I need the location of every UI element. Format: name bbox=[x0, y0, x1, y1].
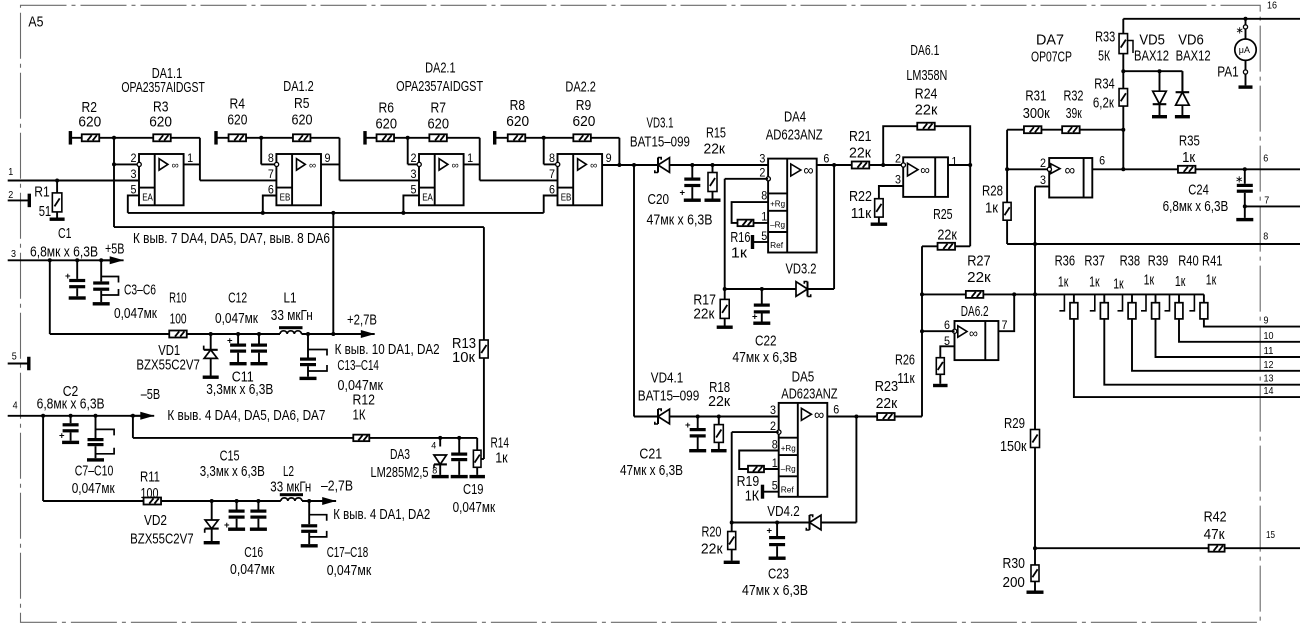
svg-text:3: 3 bbox=[770, 405, 776, 417]
svg-text:1к: 1к bbox=[1113, 277, 1124, 293]
svg-text:VD6: VD6 bbox=[1178, 32, 1204, 48]
svg-text:–2,7В: –2,7В bbox=[321, 478, 353, 494]
svg-text:R25: R25 bbox=[933, 207, 953, 223]
svg-text:К выв. 4 DA1, DA2: К выв. 4 DA1, DA2 bbox=[333, 507, 430, 523]
svg-text:R10: R10 bbox=[169, 290, 187, 306]
svg-text:6,2к: 6,2к bbox=[1093, 95, 1115, 111]
svg-text:11к: 11к bbox=[897, 371, 915, 387]
svg-text:3,3мк x 6,3В: 3,3мк x 6,3В bbox=[206, 382, 273, 398]
svg-text:200: 200 bbox=[1003, 575, 1025, 591]
svg-text:C21: C21 bbox=[639, 447, 662, 463]
svg-text:R2: R2 bbox=[82, 100, 98, 116]
svg-text:0,047мк: 0,047мк bbox=[230, 562, 275, 578]
svg-text:22к: 22к bbox=[876, 396, 898, 412]
svg-text:VD5: VD5 bbox=[1139, 32, 1165, 48]
svg-text:BAX12: BAX12 bbox=[1176, 48, 1211, 64]
svg-text:R31: R31 bbox=[1025, 89, 1046, 105]
svg-text:R39: R39 bbox=[1148, 254, 1169, 270]
svg-text:R22: R22 bbox=[849, 189, 872, 205]
svg-text:9: 9 bbox=[606, 153, 612, 165]
svg-text:R14: R14 bbox=[491, 435, 510, 451]
svg-text:4: 4 bbox=[13, 400, 18, 412]
svg-text:C15: C15 bbox=[220, 448, 240, 464]
svg-text:R26: R26 bbox=[895, 352, 915, 368]
svg-text:R37: R37 bbox=[1084, 254, 1105, 270]
svg-text:6,8мк x 6,3В: 6,8мк x 6,3В bbox=[30, 244, 98, 260]
svg-text:10к: 10к bbox=[452, 350, 476, 366]
svg-text:2: 2 bbox=[8, 189, 13, 201]
svg-text:EA: EA bbox=[142, 192, 153, 204]
svg-text:0,047мк: 0,047мк bbox=[338, 378, 384, 394]
svg-text:22к: 22к bbox=[967, 270, 991, 286]
svg-text:∞: ∞ bbox=[590, 161, 597, 172]
svg-text:14: 14 bbox=[1264, 385, 1274, 397]
svg-text:1: 1 bbox=[772, 458, 778, 470]
svg-text:4: 4 bbox=[431, 441, 436, 452]
svg-text:1к: 1к bbox=[1182, 150, 1196, 166]
svg-text:7: 7 bbox=[1002, 320, 1008, 332]
svg-text:100: 100 bbox=[141, 486, 159, 502]
svg-text:L1: L1 bbox=[284, 290, 297, 306]
svg-text:1: 1 bbox=[761, 212, 767, 224]
svg-text:620: 620 bbox=[573, 114, 596, 130]
svg-text:R27: R27 bbox=[967, 254, 991, 270]
svg-text:+: + bbox=[59, 431, 65, 442]
svg-text:C12: C12 bbox=[228, 290, 247, 306]
svg-text:0,047мк: 0,047мк bbox=[215, 311, 259, 327]
svg-text:1к: 1к bbox=[731, 246, 748, 262]
svg-text:11: 11 bbox=[1264, 345, 1274, 357]
svg-text:R42: R42 bbox=[1204, 510, 1227, 526]
svg-text:DA1.2: DA1.2 bbox=[283, 79, 314, 95]
svg-text:12: 12 bbox=[1264, 359, 1274, 371]
svg-text:0,047мк: 0,047мк bbox=[453, 500, 496, 516]
svg-text:6: 6 bbox=[833, 405, 839, 417]
svg-text:R4: R4 bbox=[230, 97, 246, 113]
svg-text:3: 3 bbox=[411, 169, 417, 181]
svg-text:8: 8 bbox=[1263, 231, 1268, 243]
svg-text:47мк x 6,3В: 47мк x 6,3В bbox=[620, 463, 683, 479]
svg-text:+: + bbox=[65, 271, 71, 282]
svg-text:620: 620 bbox=[227, 113, 247, 129]
svg-text:47к: 47к bbox=[1204, 527, 1226, 543]
svg-text:33 мкГн: 33 мкГн bbox=[270, 479, 311, 495]
svg-text:R1: R1 bbox=[34, 184, 50, 200]
svg-text:R9: R9 bbox=[576, 98, 592, 114]
svg-text:47мк x 6,3В: 47мк x 6,3В bbox=[732, 350, 797, 366]
svg-text:μA: μA bbox=[1239, 45, 1250, 55]
svg-text:DA2.2: DA2.2 bbox=[565, 80, 596, 96]
svg-text:∞: ∞ bbox=[309, 161, 316, 172]
svg-text:6: 6 bbox=[1263, 153, 1268, 165]
svg-text:R38: R38 bbox=[1120, 254, 1141, 270]
svg-text:1К: 1К bbox=[745, 489, 760, 505]
svg-text:+: + bbox=[680, 188, 686, 199]
svg-text:+Rg: +Rg bbox=[770, 199, 785, 209]
svg-text:A5: A5 bbox=[28, 14, 43, 31]
svg-text:R40: R40 bbox=[1178, 254, 1199, 270]
svg-text:9: 9 bbox=[325, 153, 331, 165]
svg-text:1к: 1к bbox=[1206, 273, 1217, 289]
svg-text:+: + bbox=[767, 526, 773, 537]
svg-text:R35: R35 bbox=[1179, 134, 1200, 150]
svg-text:5: 5 bbox=[12, 351, 17, 363]
svg-text:47мк x 6,3В: 47мк x 6,3В bbox=[647, 213, 713, 229]
svg-text:C20: C20 bbox=[648, 192, 670, 208]
svg-text:15: 15 bbox=[1266, 529, 1275, 541]
svg-text:620: 620 bbox=[149, 115, 172, 131]
svg-text:+: + bbox=[752, 312, 758, 323]
svg-text:2: 2 bbox=[895, 154, 901, 166]
svg-text:R34: R34 bbox=[1094, 77, 1114, 93]
svg-text:1: 1 bbox=[467, 153, 473, 165]
svg-text:R5: R5 bbox=[294, 96, 310, 112]
svg-text:C16: C16 bbox=[244, 545, 263, 561]
svg-text:8: 8 bbox=[761, 191, 767, 203]
svg-text:∞: ∞ bbox=[172, 161, 179, 172]
svg-text:R12: R12 bbox=[353, 392, 376, 408]
svg-text:R41: R41 bbox=[1202, 254, 1223, 270]
svg-text:∗: ∗ bbox=[1235, 175, 1243, 186]
svg-text:DA3: DA3 bbox=[390, 447, 410, 463]
svg-text:3: 3 bbox=[131, 169, 137, 181]
svg-text:R15: R15 bbox=[706, 126, 726, 142]
svg-text:0,047мк: 0,047мк bbox=[114, 306, 158, 322]
svg-text:R8: R8 bbox=[510, 98, 525, 114]
svg-text:22к: 22к bbox=[849, 145, 872, 161]
svg-text:R6: R6 bbox=[379, 101, 395, 117]
svg-text:C1: C1 bbox=[58, 226, 72, 242]
svg-text:22к: 22к bbox=[693, 307, 715, 323]
svg-text:3,3мк x 6,3В: 3,3мк x 6,3В bbox=[200, 464, 265, 480]
svg-text:10: 10 bbox=[1264, 330, 1274, 342]
svg-text:39к: 39к bbox=[1066, 106, 1082, 122]
svg-text:∞: ∞ bbox=[814, 408, 824, 424]
svg-text:∞: ∞ bbox=[920, 163, 930, 178]
svg-text:1: 1 bbox=[187, 153, 193, 165]
svg-text:VD4.2: VD4.2 bbox=[767, 504, 799, 520]
svg-text:16: 16 bbox=[1267, 0, 1277, 12]
svg-text:DA6.2: DA6.2 bbox=[961, 304, 989, 320]
svg-text:1к: 1к bbox=[1175, 274, 1186, 290]
svg-text:6,8мк x 6,3В: 6,8мк x 6,3В bbox=[1163, 199, 1229, 215]
svg-text:+: + bbox=[685, 420, 691, 431]
svg-text:R30: R30 bbox=[1003, 556, 1025, 572]
svg-text:3: 3 bbox=[895, 175, 901, 187]
svg-text:R29: R29 bbox=[1004, 416, 1025, 432]
svg-text:1к: 1к bbox=[985, 201, 999, 217]
svg-text:5К: 5К bbox=[1098, 49, 1110, 65]
svg-text:R11: R11 bbox=[140, 470, 160, 486]
svg-text:1К: 1К bbox=[353, 407, 366, 423]
svg-text:+: + bbox=[227, 336, 233, 347]
svg-text:К выв. 4 DA4, DA5, DA6, DA7: К выв. 4 DA4, DA5, DA6, DA7 bbox=[167, 408, 325, 424]
svg-text:VD2: VD2 bbox=[144, 513, 167, 529]
svg-text:7: 7 bbox=[268, 169, 274, 181]
svg-text:PA1: PA1 bbox=[1217, 65, 1238, 81]
svg-text:C19: C19 bbox=[463, 482, 484, 498]
svg-text:5: 5 bbox=[761, 231, 767, 243]
svg-text:∗: ∗ bbox=[1236, 26, 1244, 37]
svg-text:+2,7В: +2,7В bbox=[347, 313, 377, 329]
svg-text:7: 7 bbox=[549, 169, 555, 181]
svg-text:L2: L2 bbox=[283, 464, 294, 480]
svg-text:1к: 1к bbox=[1058, 275, 1069, 291]
svg-text:∞: ∞ bbox=[803, 163, 813, 179]
svg-text:VD3.1: VD3.1 bbox=[647, 116, 674, 132]
svg-text:1: 1 bbox=[8, 166, 13, 178]
svg-text:–Rg: –Rg bbox=[770, 219, 785, 229]
svg-text:EB: EB bbox=[561, 192, 572, 204]
svg-text:R32: R32 bbox=[1064, 89, 1084, 105]
svg-text:К выв. 10 DA1, DA2: К выв. 10 DA1, DA2 bbox=[335, 342, 440, 358]
svg-text:8: 8 bbox=[268, 153, 274, 165]
svg-text:11к: 11к bbox=[851, 206, 872, 222]
svg-text:1: 1 bbox=[951, 157, 957, 169]
svg-text:R20: R20 bbox=[702, 525, 722, 541]
svg-text:AD623ANZ: AD623ANZ bbox=[781, 387, 837, 403]
svg-text:620: 620 bbox=[78, 115, 101, 131]
svg-text:R28: R28 bbox=[982, 183, 1003, 199]
svg-text:6: 6 bbox=[944, 320, 950, 332]
svg-text:22к: 22к bbox=[701, 542, 723, 558]
svg-text:620: 620 bbox=[428, 117, 450, 133]
svg-text:3: 3 bbox=[759, 154, 765, 166]
svg-text:5: 5 bbox=[772, 481, 778, 493]
svg-text:Ref: Ref bbox=[770, 240, 784, 250]
svg-text:DA7: DA7 bbox=[1036, 33, 1064, 49]
svg-text:620: 620 bbox=[506, 114, 529, 130]
svg-text:–5В: –5В bbox=[141, 387, 161, 403]
svg-text:R7: R7 bbox=[431, 101, 447, 117]
svg-text:22к: 22к bbox=[708, 394, 731, 410]
svg-text:+5В: +5В bbox=[105, 242, 125, 258]
svg-text:C13–C14: C13–C14 bbox=[337, 358, 379, 374]
svg-text:6,8мк x 6,3В: 6,8мк x 6,3В bbox=[37, 397, 105, 413]
svg-text:DA2.1: DA2.1 bbox=[425, 61, 456, 77]
svg-text:LM285M2,5: LM285M2,5 bbox=[371, 465, 429, 481]
svg-text:22к: 22к bbox=[704, 141, 726, 157]
svg-text:3: 3 bbox=[1040, 175, 1046, 187]
svg-text:Ref: Ref bbox=[781, 484, 795, 494]
svg-text:OP07CP: OP07CP bbox=[1031, 50, 1072, 66]
svg-text:51: 51 bbox=[39, 204, 52, 220]
svg-text:R3: R3 bbox=[153, 100, 169, 116]
svg-text:2: 2 bbox=[759, 168, 765, 180]
svg-text:2: 2 bbox=[131, 153, 137, 165]
svg-text:100: 100 bbox=[170, 312, 187, 328]
svg-text:13: 13 bbox=[1264, 373, 1274, 385]
svg-text:150к: 150к bbox=[1000, 439, 1027, 455]
svg-text:C24: C24 bbox=[1188, 183, 1209, 199]
svg-text:AD623ANZ: AD623ANZ bbox=[766, 128, 823, 144]
svg-text:VD4.1: VD4.1 bbox=[651, 371, 683, 387]
svg-text:6: 6 bbox=[1099, 156, 1105, 168]
svg-text:R24: R24 bbox=[915, 86, 938, 102]
svg-text:R19: R19 bbox=[737, 474, 760, 490]
svg-text:OPA2357AIDGST: OPA2357AIDGST bbox=[121, 80, 205, 96]
svg-text:BAT15–099: BAT15–099 bbox=[630, 135, 690, 151]
svg-text:C3–C6: C3–C6 bbox=[124, 283, 156, 299]
svg-text:BAT15–099: BAT15–099 bbox=[638, 388, 700, 404]
svg-text:C17–C18: C17–C18 bbox=[327, 545, 369, 561]
svg-text:R33: R33 bbox=[1095, 30, 1115, 46]
svg-text:620: 620 bbox=[376, 117, 398, 133]
svg-text:1к: 1к bbox=[495, 451, 508, 467]
svg-text:BAX12: BAX12 bbox=[1134, 48, 1169, 64]
svg-text:9: 9 bbox=[1264, 315, 1269, 327]
svg-text:1к: 1к bbox=[1144, 273, 1155, 289]
svg-text:–Rg: –Rg bbox=[781, 464, 796, 474]
svg-text:3: 3 bbox=[11, 248, 16, 260]
svg-text:VD3.2: VD3.2 bbox=[786, 261, 817, 277]
svg-text:47мк x 6,3В: 47мк x 6,3В bbox=[742, 583, 808, 599]
svg-text:0,047мк: 0,047мк bbox=[72, 481, 116, 497]
svg-text:C7–C10: C7–C10 bbox=[75, 463, 114, 479]
svg-text:6: 6 bbox=[823, 153, 829, 165]
svg-text:2: 2 bbox=[411, 153, 417, 165]
svg-text:BZX55C2V7: BZX55C2V7 bbox=[136, 358, 200, 374]
svg-text:C23: C23 bbox=[768, 567, 789, 583]
svg-text:33 мкГн: 33 мкГн bbox=[271, 308, 313, 324]
svg-text:DA6.1: DA6.1 bbox=[910, 43, 939, 59]
svg-text:8: 8 bbox=[432, 466, 437, 477]
svg-text:22к: 22к bbox=[915, 103, 938, 119]
svg-text:8: 8 bbox=[549, 153, 555, 165]
svg-text:R36: R36 bbox=[1055, 254, 1076, 270]
svg-text:LM358N: LM358N bbox=[906, 68, 947, 84]
svg-text:R16: R16 bbox=[730, 230, 750, 246]
svg-text:∞: ∞ bbox=[969, 327, 978, 341]
svg-text:DA5: DA5 bbox=[792, 370, 815, 386]
svg-text:∞: ∞ bbox=[452, 161, 459, 172]
svg-text:300к: 300к bbox=[1023, 106, 1051, 122]
svg-text:EA: EA bbox=[422, 192, 433, 204]
svg-text:C22: C22 bbox=[755, 334, 777, 350]
svg-text:R21: R21 bbox=[849, 129, 872, 145]
svg-text:0,047мк: 0,047мк bbox=[327, 563, 372, 579]
svg-text:R23: R23 bbox=[875, 379, 899, 395]
svg-text:BZX55C2V7: BZX55C2V7 bbox=[130, 532, 194, 548]
svg-text:22к: 22к bbox=[937, 227, 957, 243]
svg-text:EB: EB bbox=[280, 192, 291, 204]
svg-text:VD1: VD1 bbox=[158, 343, 180, 359]
svg-text:OPA2357AIDGST: OPA2357AIDGST bbox=[396, 79, 483, 95]
svg-text:∞: ∞ bbox=[1065, 162, 1076, 179]
svg-text:К выв. 7 DA4, DA5, DA7, выв. 8: К выв. 7 DA4, DA5, DA7, выв. 8 DA6 bbox=[133, 231, 330, 247]
svg-text:+: + bbox=[224, 520, 230, 531]
svg-text:+Rg: +Rg bbox=[781, 443, 796, 453]
svg-text:1к: 1к bbox=[1089, 275, 1100, 291]
svg-text:2: 2 bbox=[1040, 158, 1046, 170]
svg-text:7: 7 bbox=[1264, 195, 1269, 207]
svg-text:620: 620 bbox=[292, 113, 313, 129]
svg-text:DA4: DA4 bbox=[784, 110, 806, 126]
